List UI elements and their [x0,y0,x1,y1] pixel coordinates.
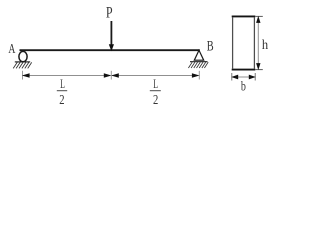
svg-text:P: P [106,5,113,22]
svg-text:b: b [241,78,246,94]
svg-text:A: A [8,40,15,56]
svg-text:2: 2 [153,92,158,108]
svg-text:h: h [262,38,269,52]
svg-text:2: 2 [59,92,64,108]
svg-text:L: L [60,79,65,92]
svg-text:B: B [207,36,214,54]
svg-text:L: L [153,79,158,92]
